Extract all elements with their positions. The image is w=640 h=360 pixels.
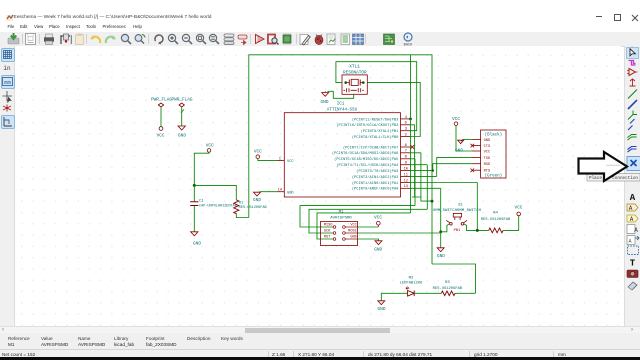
wire pin 8 MISO riser bbox=[410, 159, 415, 206]
svg-text:GND: GND bbox=[287, 191, 294, 195]
power flag PWR_FLAG (right) bbox=[171, 98, 192, 126]
wire R1 bottom to outer loop riser bbox=[236, 214, 249, 218]
connector M1 AVRISPSMD bbox=[321, 210, 358, 245]
svg-text:12: 12 bbox=[404, 179, 408, 183]
power symbol VCC at R4 bbox=[514, 206, 522, 216]
wire pin 12 to switch riser bbox=[410, 183, 477, 231]
pin 1 VCC (left) bbox=[277, 157, 294, 164]
op-amp style IC1 ATTINY44-SSU body bbox=[284, 103, 400, 197]
resonator XTL1 box bbox=[342, 65, 367, 95]
svg-text:IC1: IC1 bbox=[337, 103, 345, 107]
svg-text:LEDFAB1206: LEDFAB1206 bbox=[400, 282, 424, 286]
wire M1 VCC pin to VCC symbol bbox=[358, 226, 379, 228]
pin GND of J2 bbox=[472, 139, 491, 143]
wire switch left node down to ground bbox=[440, 232, 442, 248]
svg-text:R3: R3 bbox=[445, 281, 450, 285]
resistor R3 (horizontal) bbox=[433, 281, 463, 296]
wire R3 right to riser bbox=[455, 292, 476, 294]
no-connect cross at CTS bbox=[471, 144, 475, 148]
svg-text:(PCINT5/OC1B/MISO/DO/ADC5)PA5: (PCINT5/OC1B/MISO/DO/ADC5)PA5 bbox=[334, 157, 398, 162]
pin 4 PB3 (right) bbox=[352, 116, 410, 123]
svg-text:VCC: VCC bbox=[287, 160, 294, 164]
svg-text:8: 8 bbox=[405, 156, 407, 160]
pin 3 PB1 (right) bbox=[361, 128, 410, 135]
svg-text:GND: GND bbox=[253, 198, 261, 203]
ground symbol below switch bbox=[437, 248, 445, 259]
svg-text:10: 10 bbox=[404, 168, 408, 172]
svg-text:(PCINT6/OC1A/SDA/MOSI/ADC6)PA6: (PCINT6/OC1A/SDA/MOSI/ADC6)PA6 bbox=[332, 151, 398, 156]
svg-text:PWR_FLAG: PWR_FLAG bbox=[151, 98, 172, 103]
tooltip "Place no connection flag" bbox=[587, 174, 640, 182]
connector J2 FTDI header box bbox=[481, 130, 506, 179]
wire ISP RST run bbox=[317, 213, 411, 239]
pin MISO of M1 bbox=[324, 224, 336, 229]
svg-text:VCC: VCC bbox=[157, 134, 165, 139]
wire ISP MISO run bbox=[300, 206, 415, 227]
svg-text:AVRISPSMD: AVRISPSMD bbox=[330, 217, 352, 221]
svg-text:CTS: CTS bbox=[484, 145, 491, 149]
wire switch right leg to R4 bbox=[464, 224, 489, 231]
power symbol VCC at chip pin 1 bbox=[254, 150, 262, 159]
svg-text:VCC: VCC bbox=[452, 117, 460, 122]
ground symbol at M1 bbox=[374, 241, 382, 253]
pin 5 PB2 (right) bbox=[336, 122, 410, 129]
svg-text:RES-US1206FAB: RES-US1206FAB bbox=[481, 218, 511, 222]
svg-text:(PCINT2/AIN1/ADC2)PA2: (PCINT2/AIN1/ADC2)PA2 bbox=[352, 175, 398, 180]
svg-text:(PCINT3/T0/ADC3)PA3: (PCINT3/T0/ADC3)PA3 bbox=[356, 169, 398, 174]
junction LED riser bbox=[431, 200, 434, 203]
wire VCC to J2 VCC pin bbox=[456, 126, 472, 152]
svg-text:in: in bbox=[3, 65, 11, 72]
pin RTS of J2 bbox=[472, 170, 491, 174]
svg-text:5: 5 bbox=[405, 122, 407, 126]
ground symbol at resonator bbox=[321, 91, 329, 105]
svg-text:6MM_SWITCH6MM_SWITCH: 6MM_SWITCH6MM_SWITCH bbox=[433, 209, 482, 213]
svg-text:mm: mm bbox=[4, 79, 11, 86]
wire R4 to VCC bbox=[503, 216, 519, 231]
wire LED net horizontal run bbox=[432, 264, 476, 293]
svg-text:(PCINT10/INT0/OC1A/CKOUT)PB2: (PCINT10/INT0/OC1A/CKOUT)PB2 bbox=[336, 123, 398, 128]
power symbol VCC at J2 bbox=[452, 117, 460, 126]
pin 7 PA6 (right) bbox=[332, 150, 410, 157]
pin RST of M1 bbox=[324, 236, 336, 241]
power symbol VCC at M1 bbox=[374, 215, 382, 227]
svg-text:GND: GND bbox=[437, 254, 445, 259]
pin MOSI of M1 bbox=[343, 230, 358, 235]
pin VCC of J2 bbox=[472, 151, 491, 155]
wire pin 7 to LED net riser bbox=[410, 153, 432, 201]
svg-text:RST: RST bbox=[324, 236, 331, 240]
svg-text:GND: GND bbox=[193, 242, 201, 247]
wire pin 13 to switch left node bbox=[410, 188, 441, 232]
ground symbol below C1 bbox=[191, 232, 202, 247]
svg-text:RXD: RXD bbox=[484, 163, 491, 167]
svg-text:(PCINT1/AIN0/ADC1)PA1: (PCINT1/AIN0/ADC1)PA1 bbox=[352, 181, 399, 186]
wire LED left to ground riser bbox=[381, 293, 407, 300]
svg-text:RES-US1206FAB: RES-US1206FAB bbox=[239, 206, 268, 210]
svg-text:A: A bbox=[630, 216, 634, 223]
svg-text:2: 2 bbox=[405, 133, 407, 137]
junction switch/R4/pin12 node bbox=[476, 229, 479, 232]
svg-text:M2: M2 bbox=[409, 277, 414, 281]
capacitor C1 bbox=[190, 185, 237, 231]
svg-text:A: A bbox=[628, 239, 631, 245]
svg-text:XTL1: XTL1 bbox=[349, 65, 360, 70]
svg-text:R4: R4 bbox=[493, 211, 498, 215]
svg-text:(PCINT9/XTAL2)PB1: (PCINT9/XTAL2)PB1 bbox=[361, 129, 399, 134]
resistor R1 (vertical, RESET pull-up) bbox=[234, 200, 268, 214]
svg-text:(PCINT8/XTAL1/CLK)PB0: (PCINT8/XTAL1/CLK)PB0 bbox=[352, 135, 398, 140]
svg-text:RTS: RTS bbox=[484, 170, 491, 174]
wire VCC symbol to chip pin 1 bbox=[258, 159, 277, 161]
svg-text:PWR_FLAG: PWR_FLAG bbox=[171, 98, 192, 103]
junction at pin 4 / RST riser bbox=[409, 118, 412, 121]
svg-text:GND: GND bbox=[484, 139, 491, 143]
svg-text:3: 3 bbox=[405, 128, 407, 132]
power flag PWR_FLAG (left) bbox=[151, 98, 172, 127]
svg-text:A: A bbox=[630, 193, 636, 203]
pin 11 PA2 (right) bbox=[352, 173, 410, 180]
svg-text:VCC: VCC bbox=[514, 206, 522, 211]
pin SCK of M1 bbox=[324, 230, 336, 235]
power symbol VCC under left flag bbox=[157, 127, 165, 139]
svg-text:VCC: VCC bbox=[374, 215, 382, 220]
wire resonator left pin over top to chip pin 3 bbox=[336, 62, 417, 131]
svg-text:14: 14 bbox=[278, 189, 283, 193]
svg-text:13: 13 bbox=[404, 185, 408, 189]
wire J2 GND pin stub bbox=[463, 138, 472, 140]
svg-text:(PCINT0/AREF/ADC0)PA0: (PCINT0/AREF/ADC0)PA0 bbox=[352, 187, 398, 192]
svg-text:(PCINT11/RESET/DW)PB3: (PCINT11/RESET/DW)PB3 bbox=[352, 117, 398, 122]
svg-text:VCC: VCC bbox=[254, 150, 262, 155]
pin 13 PA0 (right) bbox=[352, 185, 410, 192]
junction resonator right pin bbox=[362, 81, 365, 84]
pin CTS of J2 bbox=[472, 145, 491, 149]
svg-text:M1: M1 bbox=[339, 210, 344, 214]
svg-text:11: 11 bbox=[404, 173, 409, 177]
junction switch left node bbox=[439, 230, 442, 233]
svg-text:T: T bbox=[630, 259, 636, 269]
annotation arrow pointing at no-connect tool bbox=[579, 152, 628, 181]
svg-text:(PCINT4/T1/SCL/USCK/ADC4)PA4: (PCINT4/T1/SCL/USCK/ADC4)PA4 bbox=[336, 163, 399, 168]
svg-text:CAP-UNPOLARIZEDFAB: CAP-UNPOLARIZEDFAB bbox=[199, 205, 237, 209]
pin TXD of J2 bbox=[472, 157, 491, 161]
pin VCC of M1 bbox=[343, 224, 358, 229]
svg-text:ATTINY44-SSU: ATTINY44-SSU bbox=[327, 108, 358, 112]
svg-text:A: A bbox=[634, 227, 638, 234]
LED M2 LEDFAB1206 bbox=[400, 277, 424, 297]
svg-text:9: 9 bbox=[405, 162, 407, 166]
svg-text:GND: GND bbox=[321, 100, 329, 105]
svg-text:6: 6 bbox=[405, 144, 407, 148]
pin 6 PA7 (right) bbox=[343, 144, 410, 151]
svg-text:GND: GND bbox=[455, 148, 463, 153]
svg-text:GND: GND bbox=[374, 247, 382, 252]
svg-text:C1: C1 bbox=[199, 200, 204, 204]
wire GND symbol to chip pin 14 bbox=[260, 191, 278, 193]
pin 12 PA1 (right) bbox=[352, 179, 410, 186]
svg-text:GND: GND bbox=[378, 307, 386, 312]
wire pin 9 SCK riser bbox=[410, 165, 427, 210]
pin 2 PB0 (right) bbox=[352, 133, 410, 140]
junction resonator left pin bbox=[344, 81, 347, 84]
svg-text:GND: GND bbox=[178, 134, 186, 139]
wire switch left leg to ground riser bbox=[441, 224, 450, 232]
ground symbol at chip pin 14 bbox=[253, 192, 261, 203]
svg-text:A: A bbox=[629, 205, 633, 212]
resistor R4 (horizontal) bbox=[481, 211, 511, 233]
ground symbol at LED bbox=[378, 301, 386, 312]
pin RXD of J2 bbox=[472, 163, 491, 167]
wire VCC to C1 junction bbox=[194, 152, 209, 185]
svg-text:PB1: PB1 bbox=[454, 229, 461, 233]
ground symbol at J2 bbox=[455, 139, 464, 153]
svg-text:VCC: VCC bbox=[484, 151, 491, 155]
svg-text:SCK: SCK bbox=[324, 230, 331, 234]
wire pin 10 to FTDI RXD bbox=[410, 164, 472, 171]
wire pin 11 to FTDI TXD bbox=[410, 158, 472, 177]
pin 14 GND (left) bbox=[277, 189, 294, 196]
wire outer loop (riser up, across top, down right side) bbox=[249, 55, 432, 264]
pin 8 PA5 (right) bbox=[334, 156, 410, 163]
no-connect cross at RTS bbox=[471, 169, 475, 173]
wire resonator bottom pin to ground bbox=[327, 91, 353, 98]
svg-text:MISO: MISO bbox=[324, 224, 333, 228]
wire M1 MOSI pin run to switch node bbox=[358, 232, 441, 234]
pin 10 PA3 (right) bbox=[356, 168, 410, 175]
power symbol VCC (C1 net) bbox=[206, 143, 214, 152]
svg-text:(PCINT7/ICP/OC0B/ADC7)PA7: (PCINT7/ICP/OC0B/ADC7)PA7 bbox=[343, 145, 398, 150]
svg-text:(Green): (Green) bbox=[485, 174, 503, 179]
switch S1 6MM_SWITCH bbox=[433, 204, 482, 233]
svg-text:7: 7 bbox=[405, 150, 407, 154]
svg-text:TXD: TXD bbox=[484, 157, 491, 161]
wire pin 5 short riser bbox=[410, 125, 421, 197]
wire M1 GND pin to ground bbox=[358, 239, 379, 241]
wire junction to R1 top bbox=[194, 185, 236, 199]
junction at RXD corner bbox=[432, 169, 434, 171]
wire LED to R3 bbox=[415, 292, 441, 294]
svg-text:Place no connection flag: Place no connection flag bbox=[589, 176, 640, 181]
junction C1/VCC node bbox=[193, 184, 196, 187]
pin GND of M1 bbox=[343, 236, 358, 241]
pin 9 PA4 (right) bbox=[336, 162, 410, 169]
wire pin 4 RESET down to ISP RST row bbox=[410, 55, 412, 213]
svg-text:(Black): (Black) bbox=[485, 133, 503, 138]
svg-text:S1: S1 bbox=[458, 204, 463, 208]
no-connect cross at pin 6 bbox=[411, 145, 415, 149]
svg-text:RES-US1206FAB: RES-US1206FAB bbox=[433, 287, 463, 291]
svg-text:VCC: VCC bbox=[206, 143, 214, 148]
wire ISP SCK run bbox=[309, 209, 427, 233]
wire resonator right pin to chip pin 2 bbox=[367, 82, 420, 136]
ground symbol under right flag bbox=[178, 126, 186, 139]
